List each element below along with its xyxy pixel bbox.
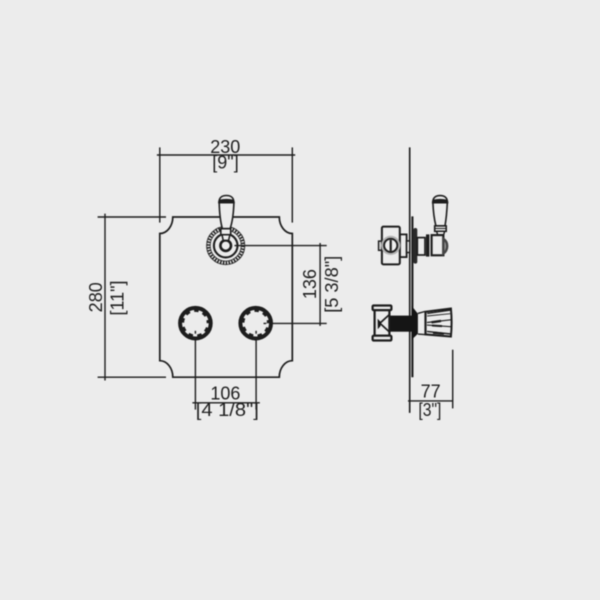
trim plate (front view, cove corners) — [160, 217, 292, 377]
bottom valve fitting: chevron — [380, 314, 390, 332]
lever handle side: body — [433, 203, 447, 226]
knob knurl streak 2 — [427, 314, 450, 316]
boss circle — [384, 239, 397, 252]
leader from escutcheon center — [235, 245, 327, 247]
dimension 77 line — [408, 400, 453, 402]
boss slot — [390, 240, 392, 251]
top valve body behind wall — [379, 227, 410, 265]
white collar cone bottom line — [418, 333, 425, 336]
dimension 280 line — [104, 214, 106, 381]
lever handle front: collar — [221, 229, 231, 235]
body main rect — [382, 227, 400, 265]
lever handle side: collar mid line — [435, 228, 447, 230]
svg-text:136: 136 — [300, 269, 320, 299]
bottom valve fitting: black wedge — [378, 319, 381, 329]
knob left edge thick — [424, 311, 426, 335]
lever handle side: tail — [437, 231, 445, 235]
body stem to wall — [407, 241, 410, 253]
dimension 77 right extension — [452, 350, 454, 409]
wall line (side view) — [409, 147, 411, 413]
lever handle front: body — [219, 203, 234, 229]
dimension 230 line — [157, 154, 295, 156]
escutcheon section at wall (top assembly) — [413, 228, 417, 264]
knob knurl streak 3 blob — [432, 321, 442, 322]
lever handle front: cap — [219, 196, 234, 203]
lever handle side: cap — [433, 196, 448, 203]
white collar cone top line — [418, 312, 425, 314]
lever handle side: cap dark band — [433, 199, 448, 203]
hub rounded end — [443, 239, 447, 254]
dimension 106 line — [192, 402, 259, 404]
knurled knob (side) — [426, 309, 452, 337]
svg-text:77: 77 — [421, 382, 441, 402]
svg-text:[4 1/8"]: [4 1/8"] — [196, 400, 259, 420]
knob knurl streak 4 blob — [432, 325, 442, 328]
svg-text:[5 3/8"]: [5 3/8"] — [322, 256, 342, 313]
dimension 230 left extension/tick — [159, 147, 161, 222]
lever handle front: tail — [222, 235, 230, 241]
left port circle (knurled) — [181, 309, 210, 338]
hub (top assembly) — [432, 235, 444, 255]
escutcheon middle ring — [214, 234, 238, 258]
dimension 106 left extension — [194, 331, 196, 410]
bottom valve fitting: bottom cap — [373, 336, 392, 341]
bottom valve fitting: tube — [375, 310, 390, 336]
svg-text:[9"]: [9"] — [212, 153, 238, 173]
knob knurl streak 5 blob — [433, 333, 444, 334]
knob knurl streak 5 — [427, 331, 451, 334]
lever handle front: cap dark band — [219, 199, 234, 203]
flange bar (top assembly) — [426, 234, 429, 256]
leader from right port circle — [264, 322, 327, 324]
dimension 136 line — [319, 243, 321, 326]
svg-text:[11"]: [11"] — [107, 280, 127, 315]
stem (top assembly) — [417, 238, 425, 255]
svg-text:[3"]: [3"] — [418, 400, 441, 420]
black stem block through wall — [390, 316, 411, 332]
bottom valve fitting behind wall: top cap — [373, 306, 392, 311]
dimension 280 bottom extension/tick — [98, 376, 166, 378]
dimension 106 right extension — [255, 331, 257, 410]
knob knurl streak 4 — [427, 325, 451, 327]
escutcheon knurled band (front) — [208, 228, 243, 263]
lever handle side: collar — [435, 226, 447, 231]
dimension 280 top extension/tick — [98, 216, 166, 218]
body left ear — [379, 241, 382, 250]
knob knurl streak 1 — [427, 310, 450, 313]
escutcheon center ring — [220, 240, 231, 251]
body tab — [400, 234, 407, 257]
black flange cone at wall — [412, 306, 418, 340]
dimension 230 right extension/tick — [291, 147, 293, 222]
plate section line — [411, 216, 413, 377]
boss gray ring — [381, 236, 400, 255]
svg-text:280: 280 — [86, 282, 106, 312]
knob knurl streak 3 — [427, 320, 451, 323]
right port circle (knurled) — [241, 309, 270, 338]
